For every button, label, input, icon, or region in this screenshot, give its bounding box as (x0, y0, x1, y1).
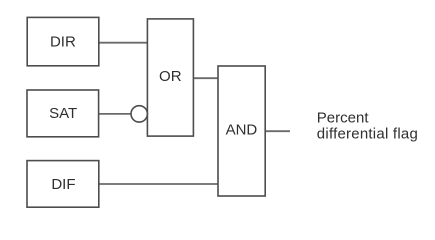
svg-text:DIF: DIF (51, 176, 75, 193)
svg-text:differential flag: differential flag (317, 126, 418, 143)
svg-text:AND: AND (226, 122, 258, 139)
svg-text:DIR: DIR (50, 33, 76, 50)
svg-text:OR: OR (159, 68, 182, 85)
svg-text:SAT: SAT (49, 105, 77, 122)
svg-text:Percent: Percent (317, 110, 370, 127)
